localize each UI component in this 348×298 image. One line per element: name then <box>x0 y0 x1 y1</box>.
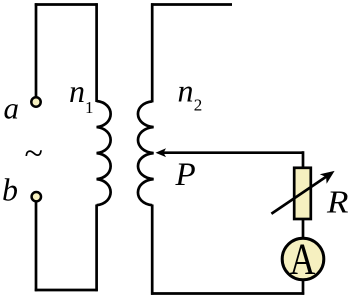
wire: primary right upper (top to winding) <box>95 3 98 102</box>
ammeter letter A <box>290 234 316 283</box>
wire: primary left upper (top to terminal a) <box>35 3 38 96</box>
svg-text:a: a <box>4 91 20 126</box>
svg-text:1: 1 <box>85 98 94 117</box>
svg-text:~: ~ <box>25 136 43 173</box>
variable resistor arrow line <box>271 175 328 214</box>
svg-text:P: P <box>175 157 196 193</box>
wire: primary bottom <box>35 289 98 292</box>
wire: primary left lower (terminal b to bottom) <box>35 202 38 291</box>
variable resistor arrowhead <box>320 171 335 184</box>
wire: right vertical top (tap line to resistor) <box>302 151 305 168</box>
wire: tap line from R branch to winding <box>163 151 303 154</box>
arrowhead of tap (points left at winding) <box>156 148 167 157</box>
wire: secondary left upper (top to winding) <box>151 3 154 102</box>
svg-text:n: n <box>178 73 194 109</box>
inductor n2 (secondary winding) <box>138 101 154 205</box>
svg-text:R: R <box>326 185 348 220</box>
wire: resistor to ammeter <box>302 219 305 238</box>
wire: ammeter to bottom <box>302 280 305 295</box>
svg-text:b: b <box>2 171 18 207</box>
terminal a <box>31 97 40 106</box>
svg-text:2: 2 <box>194 95 203 114</box>
wire: secondary bottom <box>151 292 304 295</box>
wire: secondary top (open end) <box>151 3 232 6</box>
resistor R body <box>294 168 311 219</box>
label R <box>326 185 348 220</box>
wire: primary right lower (winding to bottom) <box>95 205 98 292</box>
inductor n1 (primary winding) <box>97 101 111 205</box>
svg-text:A: A <box>290 234 316 283</box>
wire: primary top <box>35 3 98 6</box>
ammeter A body <box>282 238 324 280</box>
terminal b <box>32 192 41 201</box>
svg-text:n: n <box>69 73 85 109</box>
wire: secondary left lower (winding to bottom) <box>151 205 154 295</box>
